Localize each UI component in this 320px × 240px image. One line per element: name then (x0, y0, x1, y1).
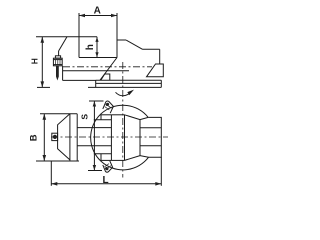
fixed jaw left face (58, 51, 60, 56)
plan view: jaw right edge (139, 120, 141, 156)
plan view: body step lower (94, 153, 112, 155)
svg-text:L: L (103, 175, 109, 186)
movable jaw right face (159, 49, 161, 64)
plan view: jaw top diagonal (125, 115, 141, 120)
plan view: right end box (148, 117, 161, 157)
dimension S line (93, 101, 96, 171)
H bottom extension (37, 86, 50, 88)
swivel base mid line (96, 82, 162, 84)
dimension h arrows (95, 37, 98, 58)
plan view: horizontal centerline (51, 136, 168, 138)
plan view: screw boss bottom line (77, 145, 111, 147)
frustum right face (69, 114, 71, 161)
fixed jaw face (96, 37, 98, 58)
B top extension + flange top (40, 113, 77, 115)
movable jaw skirt diagonal (100, 58, 117, 81)
plan view: jaw to box bottom connector (140, 156, 149, 158)
fixed jaw chamfer (59, 37, 67, 51)
plan view: body bottom edge (111, 159, 124, 161)
movable jaw top chamfer (126, 40, 143, 49)
S top extension (89, 100, 104, 102)
dimension H line (41, 37, 45, 88)
L left extension (50, 161, 52, 186)
swivel base left step edge (95, 80, 97, 87)
L right extension (160, 157, 162, 186)
svg-text:S: S (79, 114, 89, 120)
plan view: screw boss top line (77, 127, 111, 129)
swivel base bottom line (88, 86, 161, 88)
svg-text:A: A (94, 5, 101, 16)
clamp screw head (knurled) (53, 56, 62, 66)
plan view: nut lines (140, 127, 161, 129)
clamp screw shaft (56, 66, 59, 81)
svg-text:H: H (29, 58, 39, 64)
right clamp lug (147, 64, 164, 77)
S bottom extension (88, 170, 102, 172)
swivel axis centerline (vertical dashed) (122, 62, 124, 178)
fixed jaw top edge + H top extension (36, 36, 97, 38)
body left edge (62, 66, 64, 80)
slide top edge (79, 57, 117, 59)
plan view: bottom-left clamp lug (hatched) (103, 161, 113, 172)
movable jaw top step (117, 39, 126, 41)
body bottom edge (63, 79, 96, 81)
plan view: swivel base circle (clipped at right box) (91, 105, 149, 170)
swivel rotation arrow (116, 90, 135, 96)
plan view: flange vertical (76, 114, 78, 161)
plan view: body step upper (94, 119, 112, 121)
slide bottom line (63, 70, 129, 72)
svg-text:h: h (85, 44, 96, 50)
plan view: body top edge (111, 114, 124, 116)
dimension L line (51, 182, 161, 186)
plan view: handle knob frustum (58, 114, 70, 160)
plan view: jaw to box top connector (140, 117, 148, 119)
plan view: top-left clamp lug (hatched) (103, 101, 114, 113)
screw axis centerline (dashed) (63, 66, 152, 68)
B bottom extension + flange bottom (36, 160, 79, 162)
plan view: jaw front face edge (124, 115, 126, 161)
left clamp lug (101, 74, 110, 80)
plan view: screw tip end (square with pin) (52, 133, 58, 140)
movable jaw top rear edge (143, 48, 160, 50)
extension line A left / slide corner (78, 13, 80, 58)
plan view: jaw bottom diagonal (125, 156, 141, 161)
dimension B line (43, 114, 47, 161)
dimension A line (79, 14, 117, 18)
plan view: body left edge (110, 115, 112, 161)
extension line A right / movable jaw face (116, 13, 118, 58)
svg-text:B: B (29, 134, 40, 141)
swivel base top line (96, 79, 162, 81)
swivel base right edge (160, 80, 162, 87)
